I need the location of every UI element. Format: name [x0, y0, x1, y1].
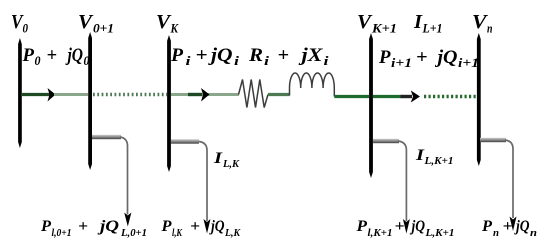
svg-text:i: i — [234, 54, 240, 68]
svg-text:P: P — [170, 46, 184, 66]
svg-text:jQ: jQ — [208, 46, 233, 66]
node label V0+1 — [78, 11, 114, 36]
svg-text:L,K+1: L,K+1 — [423, 155, 453, 167]
label Pi+1+jQi+1 — [378, 48, 479, 70]
svg-text:jQ: jQ — [208, 218, 224, 235]
bus VK — [167, 35, 171, 172]
wire bus VK+1 to arrow (dark green) — [373, 95, 402, 98]
svg-text:P: P — [21, 46, 34, 66]
svg-text:P: P — [355, 218, 367, 235]
label plus between Ri and jXi — [278, 46, 290, 66]
label Pi+jQi — [170, 46, 240, 68]
svg-text:L,0+1: L,0+1 — [120, 227, 147, 239]
svg-text:0: 0 — [23, 21, 29, 36]
load branch bus V0+1 horizontal — [92, 135, 121, 139]
load label Pn + jQn — [481, 218, 537, 239]
wire resistor to inductor — [268, 93, 290, 96]
svg-text:I: I — [213, 150, 223, 167]
current label IL,K+1 — [415, 147, 454, 167]
load arrowhead down (branch Vn) — [510, 217, 517, 232]
svg-text:l,0+1: l,0+1 — [52, 227, 72, 239]
svg-text:R: R — [248, 46, 263, 66]
svg-text:i+1: i+1 — [391, 56, 412, 70]
svg-text:+: + — [416, 48, 428, 68]
bus V0+1 — [88, 32, 92, 170]
resistor Ri — [239, 80, 269, 108]
svg-text:l,K: l,K — [172, 227, 182, 239]
wire arrow to bus V0+1 (faded green) — [54, 93, 88, 96]
svg-text:jQ: jQ — [513, 218, 529, 235]
label Ri — [248, 46, 270, 68]
svg-text:n: n — [530, 227, 537, 239]
arrowhead right on segment VK-resistor — [201, 88, 210, 102]
svg-text:+: + — [47, 46, 58, 66]
load arrowhead down (branch VK+1) — [403, 219, 410, 234]
svg-text:L,K: L,K — [224, 227, 240, 239]
load arrowhead down (branch VK) — [204, 219, 211, 234]
svg-text:+: + — [503, 218, 513, 235]
node label IL+1 — [413, 11, 443, 36]
svg-text:0: 0 — [35, 54, 42, 68]
svg-text:L,K+1: L,K+1 — [424, 227, 454, 239]
wire inductor to bus VK+1 — [334, 95, 369, 98]
load branch bus V0+1 corner and drop — [120, 137, 128, 215]
svg-text:0: 0 — [84, 54, 91, 68]
dotted wire arrow to bus Vn — [424, 95, 477, 98]
svg-text:i: i — [264, 54, 270, 68]
load branch bus VK corner and drop — [199, 142, 207, 222]
svg-text:+: + — [190, 218, 200, 235]
svg-text:jQ: jQ — [434, 48, 457, 68]
svg-text:K+1: K+1 — [371, 21, 397, 36]
arrow shaft black — [401, 95, 413, 98]
node label Vn — [472, 11, 493, 36]
wire dark overlay before arrow — [188, 93, 202, 96]
svg-text:+: + — [278, 46, 290, 66]
svg-text:i: i — [186, 54, 192, 68]
svg-text:V: V — [78, 11, 94, 33]
load branch bus VK+1 horizontal — [373, 139, 399, 143]
current label IL,K — [213, 150, 240, 170]
load branch bus VK+1 corner and drop — [398, 141, 406, 221]
load branch bus VK horizontal — [171, 139, 199, 143]
wire bus VK to resistor (sage green) — [171, 93, 239, 96]
load label Pl,0+1 + jQL,0+1 — [40, 218, 147, 239]
svg-text:L+1: L+1 — [422, 21, 443, 36]
svg-text:jQ: jQ — [65, 46, 83, 66]
bus VK+1 — [369, 33, 373, 178]
svg-text:n: n — [487, 21, 493, 36]
svg-text:P: P — [160, 218, 171, 235]
svg-text:n: n — [493, 227, 499, 239]
svg-text:V: V — [357, 11, 373, 33]
svg-text:l,K+1: l,K+1 — [368, 227, 393, 239]
bus V0 — [18, 38, 22, 148]
wire bus V0 to arrow (dark green) — [21, 93, 50, 96]
load branch bus Vn horizontal — [480, 138, 506, 142]
arrowhead right on segment VK+1-Vn — [411, 91, 420, 103]
bus Vn — [477, 33, 481, 166]
svg-text:V: V — [472, 11, 488, 33]
arrowhead right on segment V0-V0+1 — [48, 88, 56, 102]
label P0+jQ0 — [21, 46, 90, 68]
svg-text:+: + — [395, 218, 405, 235]
svg-text:P: P — [40, 218, 51, 235]
svg-text:K: K — [170, 21, 180, 36]
node label VK+1 — [357, 11, 397, 36]
svg-text:i+1: i+1 — [458, 56, 479, 70]
node label V0 — [11, 11, 28, 36]
svg-text:jQ: jQ — [409, 218, 425, 235]
load branch bus Vn corner and drop — [505, 140, 513, 218]
svg-text:jX: jX — [298, 46, 323, 66]
load label Pl,K+1 + jQL,K+1 — [355, 218, 454, 239]
load label Pl,K + jQL,K — [160, 218, 240, 239]
svg-text:0+1: 0+1 — [93, 21, 114, 36]
label jXi — [298, 46, 329, 68]
load arrowhead down (branch V0+1) — [124, 213, 131, 227]
svg-text:P: P — [481, 218, 492, 235]
node label VK — [156, 11, 179, 36]
svg-text:+: + — [196, 46, 208, 66]
svg-text:L,K: L,K — [222, 158, 240, 170]
svg-text:P: P — [378, 48, 391, 68]
svg-text:V: V — [156, 11, 172, 33]
dotted wire bus V0+1 to bus VK — [93, 93, 167, 96]
svg-text:jQ: jQ — [96, 218, 119, 235]
svg-text:i: i — [324, 54, 330, 68]
inductor jXi — [290, 73, 335, 97]
svg-text:I: I — [415, 147, 425, 164]
svg-text:+: + — [78, 218, 88, 235]
